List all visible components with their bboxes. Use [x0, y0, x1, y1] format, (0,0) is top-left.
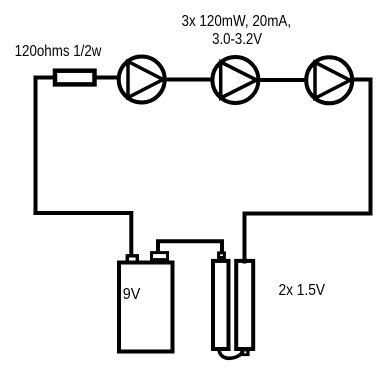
cell B bottom terminal bump [240, 348, 249, 356]
svg-text:3x 120mW, 20mA,: 3x 120mW, 20mA, [182, 13, 292, 30]
wire left loop from resistor to 9V battery negative terminal [36, 78, 132, 257]
wire lamp 1 to lamp 2 [164, 78, 213, 82]
lamp D2 circle [212, 57, 258, 103]
resistor R1 120ohms [55, 71, 95, 85]
svg-text:9V: 9V [123, 286, 141, 303]
wire 9V positive to cell A positive [158, 241, 222, 253]
svg-text:120ohms 1/2w: 120ohms 1/2w [15, 43, 102, 60]
wire resistor to lamp 1 [94, 76, 120, 80]
cell A 1.5V body [213, 261, 229, 349]
wire right loop from lamp 3 to battery pack positive [245, 80, 371, 264]
cell A terminal bump [219, 253, 225, 258]
battery BT1 negative terminal bump [127, 256, 137, 262]
wire cell A bottom to cell B bottom arc [219, 350, 242, 359]
battery BT1 9V body [119, 263, 173, 352]
lamp D1 triangle [128, 62, 163, 98]
lamp D3 triangle [315, 62, 350, 98]
battery BT1 positive terminal bump [152, 253, 168, 260]
lamp D3 circle [306, 57, 352, 103]
lamp D1 circle [119, 57, 165, 103]
lamp D2 triangle [221, 62, 257, 98]
wire lamp 2 to lamp 3 [258, 78, 307, 82]
cell B bottom terminal bump white center [244, 351, 246, 353]
svg-text:3.0-3.2V: 3.0-3.2V [212, 31, 262, 48]
cell B 1.5V body [236, 261, 253, 349]
svg-text:2x 1.5V: 2x 1.5V [279, 282, 326, 299]
